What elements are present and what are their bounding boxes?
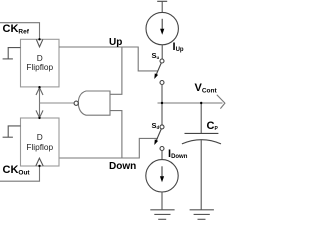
V_Cont arrowhead (217, 95, 225, 109)
wire to capacitor (200, 103, 202, 133)
wire capacitor to ground (200, 140, 202, 210)
junction dot FF1 reset (38, 86, 40, 88)
switch S2 bottom contact (160, 147, 164, 151)
rail bar FF2 (3, 136, 13, 138)
I_Up arrowhead (160, 29, 164, 35)
capacitor C_P top plate (185, 132, 219, 134)
junction dot FF1 clock (38, 38, 40, 40)
ground G2 (190, 210, 214, 220)
wire CK_Ref to FF1 clock (0, 23, 40, 40)
capacitor C_P bottom plate (182, 140, 221, 144)
S2 arm arrowhead (154, 139, 158, 145)
junction dot Vcont node (161, 102, 163, 104)
label I_Up (173, 41, 184, 53)
nand bubble (74, 101, 78, 105)
D flip-flop U1 box (21, 39, 60, 87)
switch S1 arm (156, 63, 162, 76)
junction dot FF2 clock (38, 165, 40, 167)
VDD bar top (157, 0, 167, 2)
wire Up from FF1 Q (59, 47, 158, 71)
I_Up arrow shaft (161, 19, 163, 31)
label S_u (152, 51, 160, 60)
label Down (109, 161, 136, 172)
S1 arm arrowhead (154, 73, 158, 79)
I_Down arrow shaft (161, 166, 163, 178)
switch S1 bottom contact (160, 81, 164, 85)
ground G1 (150, 210, 174, 220)
D input tie FF2 (8, 126, 20, 137)
label CK_Out (3, 164, 30, 177)
wire charge pump node (161, 85, 163, 125)
switch S1 top contact (160, 59, 164, 63)
D flip-flop U2 box (21, 118, 60, 166)
I_Down arrowhead (160, 176, 164, 182)
nand gate U3 body (78, 91, 110, 115)
label S_d (152, 121, 160, 130)
label Up (109, 37, 122, 48)
wire Idown to ground (161, 192, 163, 210)
wire Iup to switch (161, 45, 163, 59)
junction dot FF2 reset (38, 117, 40, 119)
label CK_Ref (3, 23, 29, 36)
wire V_Cont (158, 102, 223, 104)
nand input stub upper (110, 47, 122, 94)
label V_Cont (195, 82, 217, 95)
wire reset line between flipflops (39, 87, 41, 118)
switch S2 top contact (160, 125, 164, 129)
reset arrowhead into FF2 (36, 110, 43, 117)
D input tie FF1 (8, 48, 20, 59)
current source I_Up circle (146, 12, 178, 44)
label I_Down (168, 148, 187, 160)
wire switch to Idown (161, 151, 163, 160)
wire Down from FF2 Q (59, 138, 158, 158)
clock triangle FF2 (36, 158, 43, 166)
label FF2 text (21, 133, 60, 152)
label C_P (207, 120, 218, 132)
label FF1 text (21, 54, 60, 73)
reset arrowhead into FF1 (36, 88, 43, 95)
wire NAND output to reset line (40, 102, 75, 104)
wire CK_Out to FF2 clock (0, 166, 40, 181)
switch S2 arm (156, 129, 162, 142)
rail bar FF1 (3, 58, 13, 60)
wire VDD to Iup (161, 1, 163, 12)
clock triangle FF1 (36, 39, 43, 47)
junction dot cap node (200, 102, 202, 104)
current source I_Down circle (146, 160, 178, 192)
nand input stub lower (110, 111, 122, 158)
